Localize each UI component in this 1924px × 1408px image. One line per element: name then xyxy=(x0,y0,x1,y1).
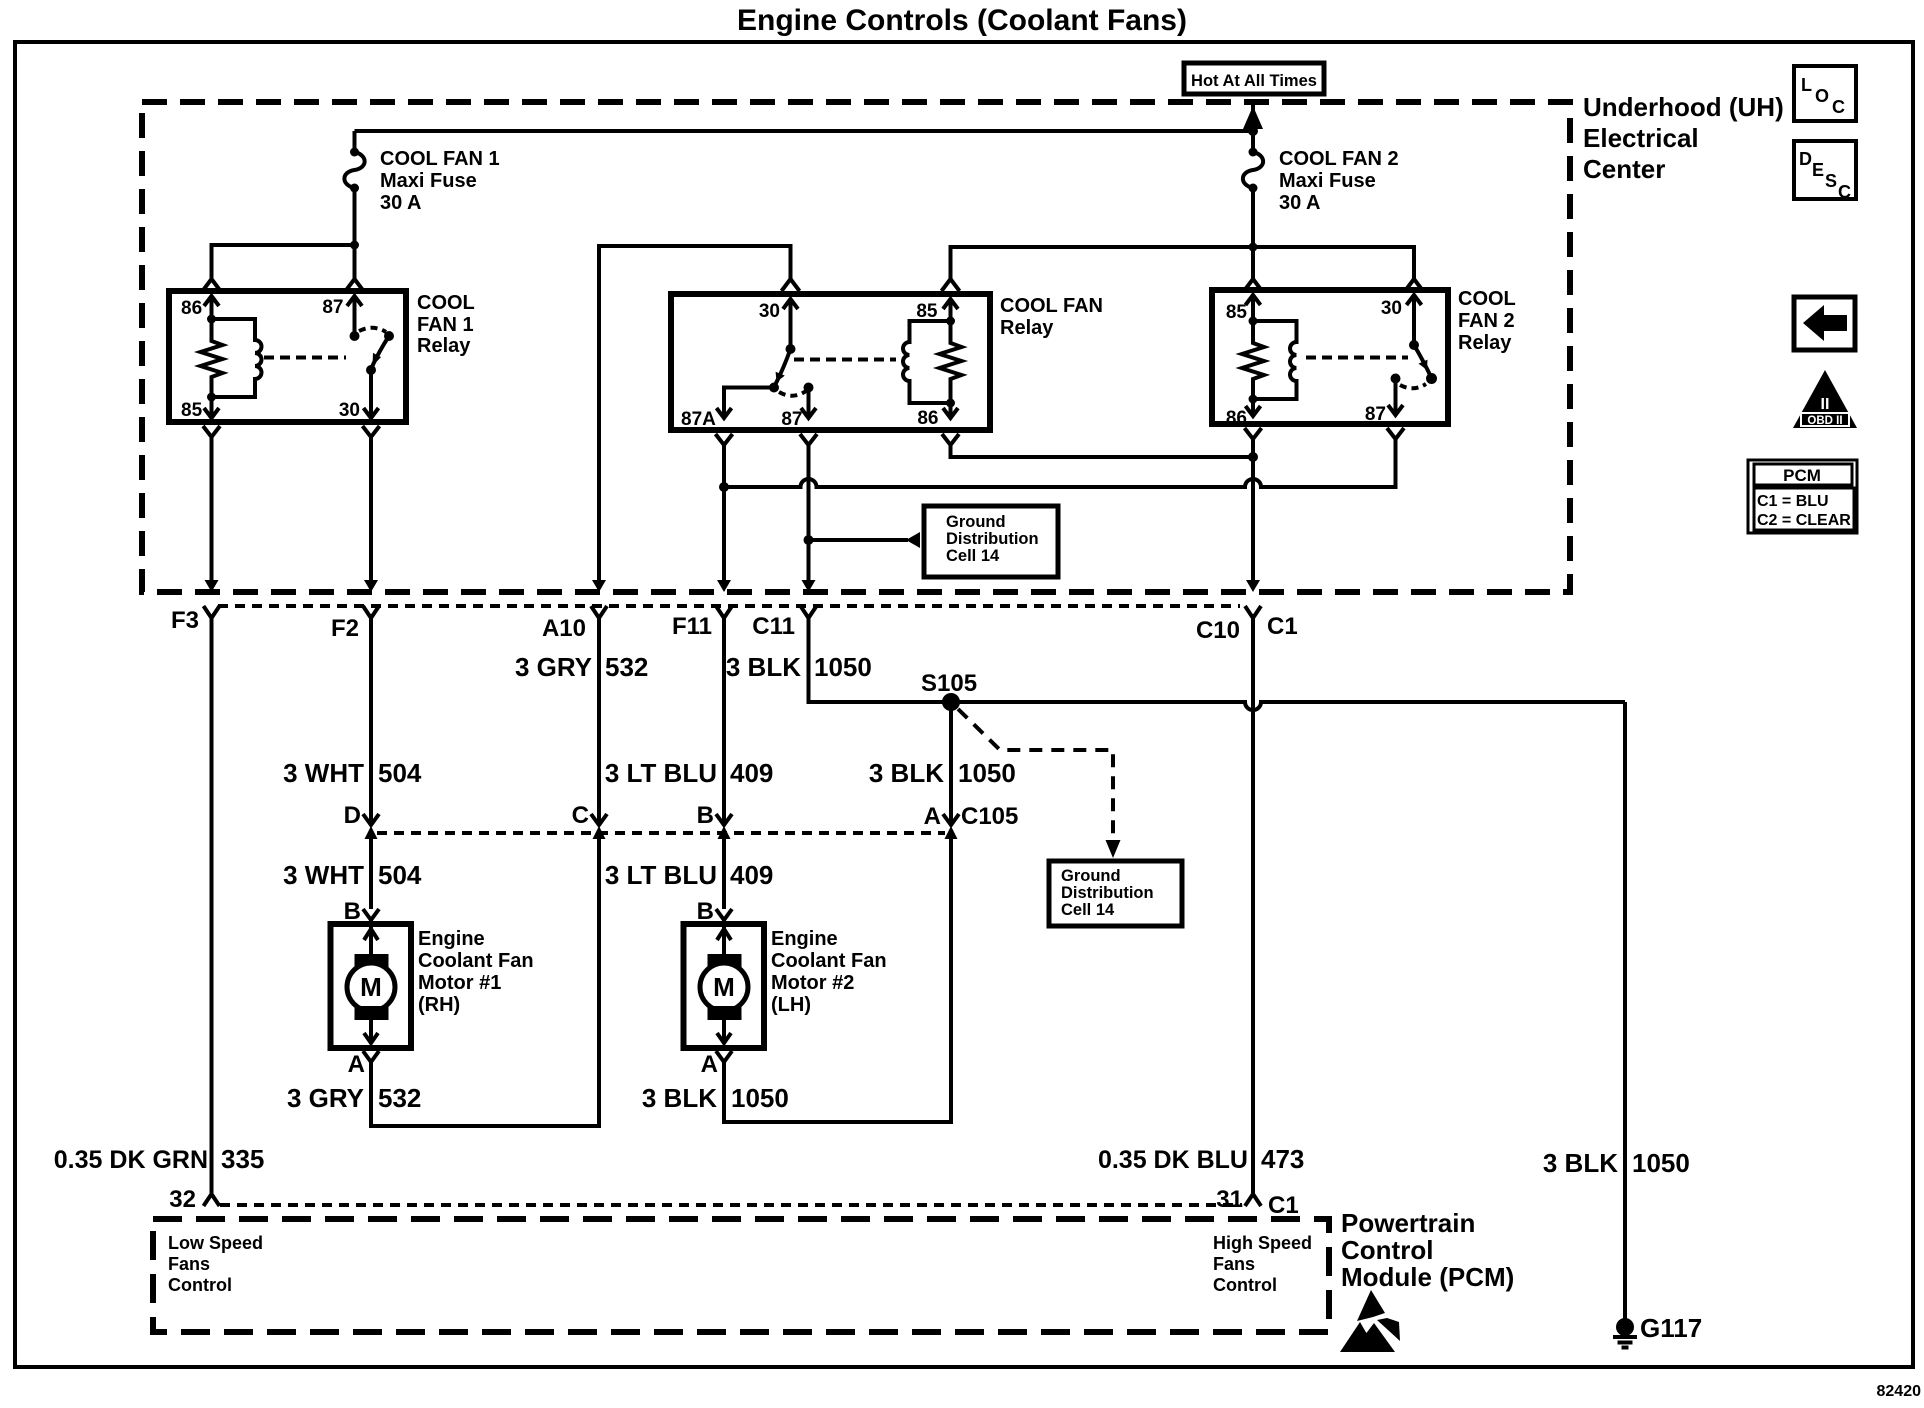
connector chevron into relay1 pin 86 xyxy=(203,279,221,291)
label: COOL FAN 2 Relay xyxy=(1458,288,1516,354)
wire F11: 3 LT BLU 409 down to C105 pin B xyxy=(722,618,726,824)
connector Y below relay2 pin 86 xyxy=(1245,428,1262,439)
connector pin C of C105 xyxy=(591,814,607,839)
wire: motor 1 return 3 GRY 532 loop to C105 pin C xyxy=(371,839,599,1126)
svg-text:Underhood (UH): Underhood (UH) xyxy=(1583,92,1784,122)
svg-text:532: 532 xyxy=(605,652,648,682)
svg-text:Maxi Fuse: Maxi Fuse xyxy=(1279,170,1376,192)
relay K1 pin 87 internal arrow wire and contact xyxy=(347,296,362,341)
relay K2 pin 85 internal arrow and wire xyxy=(943,299,958,326)
label: 3 LT BLU 409 (above C105) xyxy=(605,758,774,788)
connector Y below relay1 pin 85 xyxy=(203,426,220,437)
wire C10: 0.35 DK BLU 473 down to PCM pin 31 xyxy=(1251,618,1255,1193)
relay K3 coil xyxy=(1253,321,1297,399)
svg-text:Relay: Relay xyxy=(417,335,471,357)
svg-text:Low Speed: Low Speed xyxy=(168,1233,263,1253)
svg-text:Hot At All Times: Hot At All Times xyxy=(1191,72,1317,90)
connector pin A10 at UH outlet xyxy=(591,580,607,618)
wire: fuse1 down to relay1 pin 87 xyxy=(353,245,357,279)
label: COOL FAN 2 Maxi Fuse 30 A xyxy=(1279,148,1399,214)
connector Y into motor 1 pin B xyxy=(363,909,379,920)
svg-text:C: C xyxy=(1832,97,1845,117)
svg-text:Coolant Fan: Coolant Fan xyxy=(418,950,534,972)
svg-text:Engine: Engine xyxy=(771,928,838,950)
wire C11: 3 BLK 1050 down to splice S105 xyxy=(809,618,946,702)
svg-text:1050: 1050 xyxy=(958,758,1016,788)
node: fuse1 output tee xyxy=(350,241,359,250)
svg-text:31: 31 xyxy=(1216,1186,1243,1213)
wire F2: 3 WHT 504 down to C105 pin D xyxy=(369,618,373,824)
PCM connector row dashed line xyxy=(220,1203,1242,1207)
relay K3 pin 30 internal arrow wire and pivot xyxy=(1407,295,1422,350)
node: junction of hot feed and fuse bus xyxy=(1248,126,1258,136)
wire: S105 down to C105 pin A xyxy=(949,702,953,824)
svg-text:30: 30 xyxy=(339,400,360,421)
DESC icon box xyxy=(1794,141,1856,202)
wire: mid relay 86 over to relay2 86 wire xyxy=(951,445,1254,457)
label: 3 GRY 532 xyxy=(515,652,648,682)
relay K3 switch arm xyxy=(1414,345,1437,384)
svg-text:F2: F2 xyxy=(331,615,359,642)
svg-text:Cell 14: Cell 14 xyxy=(946,547,1000,565)
svg-text:D: D xyxy=(1799,149,1812,169)
ground G117 xyxy=(1613,1318,1637,1348)
connector Y into motor 2 pin B xyxy=(716,909,732,920)
svg-text:Control: Control xyxy=(168,1275,232,1295)
wire: 3 BLK 1050 ground leg down to G117 xyxy=(1623,702,1627,1319)
node B+ Hot At All Times tag xyxy=(1184,63,1324,94)
wire: top fuse bus xyxy=(355,129,1254,133)
splice S105 xyxy=(942,693,960,711)
connector Y below relay1 pin 30 xyxy=(363,426,380,437)
wire: mid relay 87 down to UH outlet C11 xyxy=(807,445,811,581)
node: relay K3 coil bottom xyxy=(1249,395,1258,404)
connector chevron into relay2 pin 30 xyxy=(1405,279,1423,291)
relay K2 COOL FAN Relay (middle) xyxy=(671,294,990,430)
svg-text:504: 504 xyxy=(378,860,422,890)
label: 3 LT BLU 409 (below C105) xyxy=(605,860,774,890)
svg-text:30: 30 xyxy=(1381,298,1402,319)
svg-text:85: 85 xyxy=(916,301,938,322)
svg-text:Powertrain: Powertrain xyxy=(1341,1208,1475,1238)
relay K1 pin 85 internal wire and arrow xyxy=(204,397,219,418)
dashed ground reference branch from S105 xyxy=(958,709,1113,840)
svg-text:86: 86 xyxy=(917,408,938,429)
svg-text:473: 473 xyxy=(1261,1144,1304,1174)
label: Powertrain Control Module (PCM) xyxy=(1341,1208,1514,1292)
svg-text:B: B xyxy=(697,898,714,925)
Powertrain Control Module dashed box xyxy=(153,1219,1329,1332)
svg-text:30 A: 30 A xyxy=(1279,192,1321,214)
relay K2 coil-switch dashed link xyxy=(794,358,896,362)
svg-text:C: C xyxy=(1838,182,1851,202)
svg-text:COOL FAN: COOL FAN xyxy=(1000,295,1103,317)
svg-text:3 BLK: 3 BLK xyxy=(726,652,801,682)
svg-text:30 A: 30 A xyxy=(380,192,422,214)
ESD sensitivity symbol xyxy=(1340,1290,1400,1352)
wire: C105 D down to motor 1 pin B xyxy=(369,839,373,909)
arrowhead into ground distribution reference (lower) xyxy=(1106,840,1121,858)
svg-text:87: 87 xyxy=(1365,404,1386,425)
svg-text:FAN 2: FAN 2 xyxy=(1458,310,1515,332)
svg-text:Maxi Fuse: Maxi Fuse xyxy=(380,170,477,192)
connector Y below relay2 pin 87 xyxy=(1387,428,1404,439)
svg-text:A: A xyxy=(701,1051,718,1078)
relay K2 coil resistor xyxy=(940,321,962,403)
svg-text:F3: F3 xyxy=(171,607,199,634)
wire: branch to ground distribution cell 14 (upper) xyxy=(809,538,909,542)
OBD II warning triangle xyxy=(1793,370,1857,428)
svg-text:Fans: Fans xyxy=(168,1254,210,1274)
svg-text:A: A xyxy=(348,1051,365,1078)
wire: fuse 1 down to feed split xyxy=(353,188,357,245)
svg-text:COOL: COOL xyxy=(417,292,475,314)
node: 86 bus junction on relay2 86 wire xyxy=(1248,452,1258,462)
wire: C105 B down to motor 2 pin B xyxy=(722,839,726,909)
svg-text:OBD II: OBD II xyxy=(1807,415,1842,427)
wire: feed split to relay1 pin 86 xyxy=(212,245,355,279)
svg-text:Engine: Engine xyxy=(418,928,485,950)
svg-text:Coolant Fan: Coolant Fan xyxy=(771,950,887,972)
svg-text:COOL: COOL xyxy=(1458,288,1516,310)
svg-text:M: M xyxy=(713,972,735,1002)
label: 3 BLK 1050 (motor 2 return) xyxy=(642,1083,789,1113)
label: Engine Coolant Fan Motor #2 (LH) xyxy=(771,928,887,1016)
connector Y below mid relay pin 87 xyxy=(800,434,817,445)
label: 3 GRY 532 (motor 1 return) xyxy=(287,1083,421,1113)
svg-text:Center: Center xyxy=(1583,154,1665,184)
svg-text:335: 335 xyxy=(221,1144,264,1174)
relay K2 pin 87 contact and internal wire xyxy=(801,383,816,419)
relay K1 coil xyxy=(212,319,262,397)
svg-text:Control: Control xyxy=(1213,1275,1277,1295)
svg-text:C10: C10 xyxy=(1196,617,1240,644)
svg-text:3 WHT: 3 WHT xyxy=(283,860,364,890)
relay K3 coil-switch dashed link xyxy=(1306,356,1408,360)
connector pin A of C105 xyxy=(943,814,959,839)
wire: relay2 87 down and over to 87A tie point with hops xyxy=(724,439,1396,487)
relay K1 coil resistor xyxy=(201,319,223,397)
svg-text:C1: C1 xyxy=(1268,1192,1299,1219)
connector pin C10 at UH outlet xyxy=(1245,580,1261,618)
svg-text:1050: 1050 xyxy=(731,1083,789,1113)
arrowhead into ground distribution reference xyxy=(906,532,920,548)
connector chevron into mid relay pin 85 xyxy=(942,279,960,291)
UH connector row dashed line xyxy=(218,604,1240,608)
connector pin F2 at UH outlet xyxy=(363,580,379,618)
svg-text:High Speed: High Speed xyxy=(1213,1233,1312,1253)
connector chevron into relay1 pin 87 xyxy=(346,279,364,291)
Ground Distribution Cell 14 reference box (lower) xyxy=(1049,861,1182,926)
svg-text:Motor #1: Motor #1 xyxy=(418,972,501,994)
svg-text:A: A xyxy=(924,803,941,830)
svg-text:(RH): (RH) xyxy=(418,994,460,1016)
connector Y below mid relay pin 86 xyxy=(942,434,959,445)
Underhood (UH) Electrical Center dashed box xyxy=(142,102,1570,592)
svg-text:1050: 1050 xyxy=(1632,1148,1690,1178)
wire: S105 bus to right edge drop with hop over C10 wire xyxy=(951,702,1625,710)
svg-text:B: B xyxy=(697,802,714,829)
svg-text:0.35 DK BLU: 0.35 DK BLU xyxy=(1098,1146,1248,1174)
wire: relay1 30 down to UH outlet F2 xyxy=(369,437,373,581)
svg-text:82420: 82420 xyxy=(1877,1383,1922,1400)
svg-text:Cell 14: Cell 14 xyxy=(1061,901,1115,919)
label: Low Speed Fans Control xyxy=(168,1233,263,1295)
wire: fuse2 tee down to relay2 pin 85 xyxy=(1251,247,1255,279)
svg-text:C105: C105 xyxy=(961,803,1018,830)
PCM connector color legend box xyxy=(1748,460,1857,533)
svg-text:85: 85 xyxy=(1226,302,1248,323)
back-arrow icon box xyxy=(1794,297,1855,350)
connector C105 row dashed line xyxy=(377,831,945,835)
label: 3 BLK 1050 (S105 to C105) xyxy=(869,758,1016,788)
svg-text:FAN 1: FAN 1 xyxy=(417,314,474,336)
svg-text:COOL FAN 1: COOL FAN 1 xyxy=(380,148,500,170)
node: relay K2 coil bottom xyxy=(946,399,955,408)
relay K2 pin 30 internal arrow wire and pivot xyxy=(783,299,798,354)
connector pin 32 at PCM xyxy=(204,1194,220,1206)
svg-text:C1 = BLU: C1 = BLU xyxy=(1757,493,1829,510)
svg-text:87A: 87A xyxy=(681,409,716,430)
wire: motor 2 return 3 BLK 1050 loop to C105 pin A xyxy=(724,839,951,1122)
svg-text:Engine Controls (Coolant Fans): Engine Controls (Coolant Fans) xyxy=(737,4,1187,37)
relay K3 COOL FAN 2 Relay xyxy=(1212,290,1448,429)
wire F3: 0.35 DK GRN 335 down to PCM pin 32 xyxy=(210,618,214,1193)
label: 0.35 DK GRN 335 xyxy=(54,1144,265,1174)
svg-text:3 WHT: 3 WHT xyxy=(283,758,364,788)
svg-text:504: 504 xyxy=(378,758,422,788)
wire: mid relay 87A down to UH outlet F11 xyxy=(722,445,726,581)
connector pin F3 at UH outlet xyxy=(204,580,220,618)
label: 0.35 DK BLU 473 xyxy=(1098,1144,1304,1174)
connector Y below motor 1 pin A xyxy=(363,1051,379,1062)
Underhood Electrical Center label xyxy=(1583,92,1784,184)
svg-text:32: 32 xyxy=(169,1186,196,1213)
connector Y below motor 2 pin A xyxy=(716,1051,732,1062)
svg-text:86: 86 xyxy=(1226,408,1247,429)
svg-text:G117: G117 xyxy=(1640,1313,1702,1343)
relay K1 switch arm xyxy=(366,331,394,375)
connector chevron into relay2 pin 85 xyxy=(1244,279,1262,291)
svg-text:Motor #2: Motor #2 xyxy=(771,972,854,994)
svg-text:3 LT BLU: 3 LT BLU xyxy=(605,860,717,890)
svg-text:L: L xyxy=(1801,75,1812,95)
connector pin F11 at UH outlet xyxy=(716,580,732,618)
label: COOL FAN 1 Relay xyxy=(417,292,475,357)
svg-text:M: M xyxy=(360,972,382,1002)
connector pin B of C105 xyxy=(716,814,732,839)
motor M1 Engine Coolant Fan Motor #1 xyxy=(331,920,412,1048)
relay K2 pin 87A arrow xyxy=(717,408,732,418)
svg-text:F11: F11 xyxy=(672,613,712,640)
wire: hot feed drop from Hot At All Times xyxy=(1243,104,1263,131)
relay K1 coil-switch dashed link xyxy=(264,356,346,360)
relay K1 pin 86 internal arrow and wire xyxy=(204,296,219,324)
svg-text:Ground: Ground xyxy=(1061,867,1121,885)
svg-text:3 BLK: 3 BLK xyxy=(869,758,944,788)
connector pin C11 at UH outlet xyxy=(801,580,817,618)
relay K2 coil xyxy=(903,321,951,403)
wire: fuse2 feed bus to mid relay 85 and relay2 30 xyxy=(951,247,1415,279)
svg-text:A10: A10 xyxy=(542,615,586,642)
relay K3 pin 87 contact and internal wire xyxy=(1388,374,1403,416)
svg-text:Fans: Fans xyxy=(1213,1254,1255,1274)
connector Y below mid relay pin 87A xyxy=(716,434,733,445)
connector pin 31 at PCM xyxy=(1245,1194,1261,1206)
label: 3 BLK 1050 (below C11) xyxy=(726,652,872,682)
svg-text:S: S xyxy=(1825,171,1837,191)
svg-text:30: 30 xyxy=(759,301,780,322)
svg-text:409: 409 xyxy=(730,860,773,890)
svg-text:B: B xyxy=(344,898,361,925)
svg-text:409: 409 xyxy=(730,758,773,788)
svg-text:3 GRY: 3 GRY xyxy=(287,1083,364,1113)
svg-text:COOL FAN 2: COOL FAN 2 xyxy=(1279,148,1399,170)
motor M2 Engine Coolant Fan Motor #2 xyxy=(684,920,765,1048)
svg-text:3 LT BLU: 3 LT BLU xyxy=(605,758,717,788)
svg-text:3 BLK: 3 BLK xyxy=(642,1083,717,1113)
connector pin D of C105 xyxy=(363,814,379,839)
wire: relay2 86 down to UH outlet C10 xyxy=(1251,439,1255,581)
relay K2 87A internal wire xyxy=(724,388,774,418)
wire: fuse 2 down to feed bus xyxy=(1251,188,1255,247)
svg-text:Control: Control xyxy=(1341,1235,1433,1265)
label: COOL FAN Relay xyxy=(1000,295,1103,339)
node: 87A / relay2-87 tie point xyxy=(719,482,729,492)
svg-text:C11: C11 xyxy=(752,613,795,640)
svg-text:PCM: PCM xyxy=(1783,466,1821,485)
svg-text:Module (PCM): Module (PCM) xyxy=(1341,1262,1514,1292)
relay K2 switch dashed arc xyxy=(779,391,806,396)
svg-text:O: O xyxy=(1815,86,1829,106)
node: ground distribution branch on 87 wire xyxy=(804,535,814,545)
svg-text:532: 532 xyxy=(378,1083,421,1113)
node: relay K1 coil bottom xyxy=(207,393,216,402)
svg-text:85: 85 xyxy=(181,400,203,421)
svg-text:Ground: Ground xyxy=(946,513,1006,531)
svg-text:C: C xyxy=(572,802,589,829)
svg-text:E: E xyxy=(1812,160,1824,180)
wire: bus corner down to fuse 1 xyxy=(353,131,357,152)
relay K3 pin 85 internal arrow and wire xyxy=(1246,295,1261,326)
label: High Speed Fans Control xyxy=(1213,1233,1312,1295)
svg-text:3 BLK: 3 BLK xyxy=(1543,1148,1618,1178)
relay K3 pin 86 internal wire and arrow xyxy=(1246,399,1261,416)
svg-text:S105: S105 xyxy=(921,670,977,697)
relay K1 switch dashed arc xyxy=(359,328,386,332)
svg-text:D: D xyxy=(344,802,361,829)
label: 3 BLK 1050 (ground leg) xyxy=(1543,1148,1690,1178)
svg-text:(LH): (LH) xyxy=(771,994,811,1016)
svg-text:87: 87 xyxy=(781,409,802,430)
svg-text:87: 87 xyxy=(322,297,343,318)
svg-text:86: 86 xyxy=(181,298,202,319)
svg-text:Relay: Relay xyxy=(1458,332,1512,354)
label: 3 WHT 504 (below C105) xyxy=(283,860,422,890)
LOC icon box xyxy=(1794,66,1856,121)
Ground Distribution Cell 14 reference box (upper) xyxy=(924,506,1058,577)
wire: A10 riser and link to mid relay pin 30 xyxy=(599,246,791,580)
svg-text:C2 = CLEAR: C2 = CLEAR xyxy=(1757,512,1851,529)
svg-text:Distribution: Distribution xyxy=(1061,884,1154,902)
fuse F1 COOL FAN 1 Maxi Fuse 30A xyxy=(344,148,364,193)
svg-text:II: II xyxy=(1821,396,1830,413)
wire: relay1 85 down to UH outlet F3 xyxy=(210,437,214,581)
svg-text:Distribution: Distribution xyxy=(946,530,1039,548)
node: fuse2 output tee xyxy=(1249,243,1258,252)
relay K3 coil resistor xyxy=(1242,321,1264,399)
svg-text:3 GRY: 3 GRY xyxy=(515,652,592,682)
svg-text:Electrical: Electrical xyxy=(1583,123,1699,153)
svg-text:Relay: Relay xyxy=(1000,317,1054,339)
label: COOL FAN 1 Maxi Fuse 30 A xyxy=(380,148,500,214)
connector chevron into mid relay pin 30 xyxy=(782,279,800,291)
fuse F2 COOL FAN 2 Maxi Fuse 30A xyxy=(1243,131,1263,193)
wire A10: 3 GRY 532 down to C105 pin C xyxy=(597,618,601,824)
relay K2 pin 86 internal wire and arrow xyxy=(943,403,958,418)
svg-text:0.35 DK GRN: 0.35 DK GRN xyxy=(54,1146,208,1174)
relay K1 pin 30 internal wire and arrow xyxy=(364,370,379,418)
relay K3 switch dashed arc xyxy=(1400,384,1426,388)
relay K1 COOL FAN 1 Relay xyxy=(169,291,406,422)
label: 3 WHT 504 (above C105) xyxy=(283,758,422,788)
relay K2 switch arm xyxy=(769,349,791,393)
svg-text:C1: C1 xyxy=(1267,613,1298,640)
svg-text:1050: 1050 xyxy=(814,652,872,682)
label: Engine Coolant Fan Motor #1 (RH) xyxy=(418,928,534,1016)
